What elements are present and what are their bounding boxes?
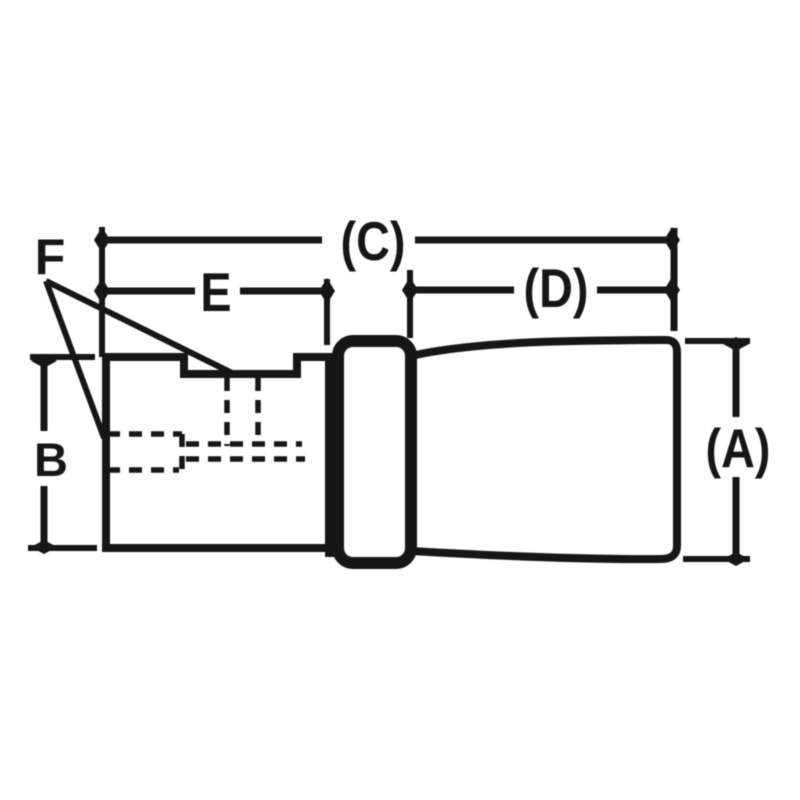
svg-text:B: B bbox=[34, 433, 68, 486]
svg-text:F: F bbox=[35, 229, 66, 285]
svg-text:(A): (A) bbox=[706, 417, 771, 478]
svg-text:(D): (D) bbox=[524, 257, 589, 318]
svg-text:E: E bbox=[200, 261, 231, 322]
svg-text:(C): (C) bbox=[341, 210, 406, 271]
